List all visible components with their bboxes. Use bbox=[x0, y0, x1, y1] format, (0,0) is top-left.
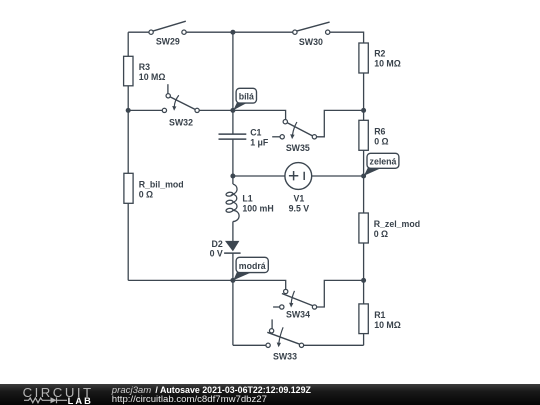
svg-text:0 Ω: 0 Ω bbox=[374, 229, 388, 239]
svg-text:SW33: SW33 bbox=[273, 351, 297, 361]
svg-text:L1: L1 bbox=[242, 194, 252, 204]
svg-text:R6: R6 bbox=[374, 126, 385, 136]
svg-text:SW35: SW35 bbox=[286, 143, 310, 153]
svg-text:bílá: bílá bbox=[239, 91, 254, 101]
svg-text:9.5 V: 9.5 V bbox=[289, 204, 310, 214]
svg-text:100 mH: 100 mH bbox=[242, 204, 273, 214]
svg-text:C1: C1 bbox=[250, 128, 261, 138]
svg-text:R1: R1 bbox=[374, 310, 385, 320]
svg-text:R2: R2 bbox=[374, 49, 385, 59]
svg-text:LAB: LAB bbox=[68, 396, 93, 405]
svg-text:D2: D2 bbox=[212, 239, 223, 249]
svg-text:10 MΩ: 10 MΩ bbox=[374, 320, 401, 330]
svg-text:R_zel_mod: R_zel_mod bbox=[374, 219, 420, 229]
svg-text:SW29: SW29 bbox=[156, 37, 180, 47]
svg-text:zelená: zelená bbox=[370, 156, 397, 166]
svg-text:SW34: SW34 bbox=[286, 310, 310, 320]
svg-text:10 MΩ: 10 MΩ bbox=[139, 72, 166, 82]
svg-text:R3: R3 bbox=[139, 62, 150, 72]
svg-text:modrá: modrá bbox=[239, 261, 266, 271]
svg-text:SW30: SW30 bbox=[299, 37, 323, 47]
svg-text:0 Ω: 0 Ω bbox=[374, 136, 388, 146]
svg-text:0 Ω: 0 Ω bbox=[139, 189, 153, 199]
svg-text:0 V: 0 V bbox=[210, 249, 223, 259]
svg-text:10 MΩ: 10 MΩ bbox=[374, 59, 401, 69]
svg-text:R_bil_mod: R_bil_mod bbox=[139, 179, 184, 189]
svg-text:SW32: SW32 bbox=[169, 118, 193, 128]
svg-text:1 μF: 1 μF bbox=[250, 138, 269, 148]
svg-text:V1: V1 bbox=[294, 193, 305, 203]
svg-text:http://circuitlab.com/c8df7mw7: http://circuitlab.com/c8df7mw7dbz27 bbox=[112, 393, 267, 404]
